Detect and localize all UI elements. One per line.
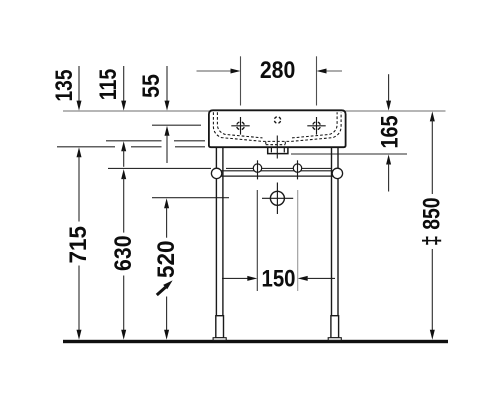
- extension line 150 left: [256, 190, 258, 291]
- svg-text:520: 520: [154, 241, 180, 279]
- reference line 55-bottom: [152, 124, 201, 126]
- console leg left: [213, 147, 226, 340]
- svg-text:135: 135: [52, 70, 78, 102]
- floor line: [63, 340, 448, 343]
- towel rail ball right: [332, 168, 342, 178]
- dimension 715 line with arrows: [77, 147, 82, 339]
- dimension 630 line with arrows: [121, 169, 126, 340]
- towel rail bar: [217, 171, 337, 176]
- svg-text:‡ 850: ‡ 850: [420, 197, 446, 246]
- extension line faucet-hole left vertical: [240, 56, 242, 105]
- fixing hole right: [293, 160, 301, 179]
- label 115: [96, 69, 122, 101]
- drain outlet tab inner marks: [271, 148, 284, 152]
- drain hole circle: [262, 183, 293, 215]
- towel rail ball left: [211, 168, 221, 178]
- svg-text:630: 630: [111, 235, 137, 271]
- label 55: [139, 74, 165, 98]
- overflow hole: [274, 117, 280, 123]
- extension line 150 right: [297, 190, 299, 291]
- reference line 115-bottom: [106, 140, 205, 142]
- reference line outlet-bottom 165: [291, 153, 407, 155]
- svg-text:55: 55: [139, 74, 165, 98]
- basin inner dashed outline outer: [213, 112, 341, 141]
- drain outlet tab: [268, 147, 288, 153]
- label 135: [52, 70, 78, 102]
- faucet hole right: [307, 117, 325, 135]
- basin inner dashed outline inner: [217, 112, 337, 138]
- reference line rail-holes 630: [108, 167, 331, 169]
- fixing hole left: [253, 160, 261, 179]
- label 520: [154, 241, 180, 279]
- drain center line: [276, 136, 278, 159]
- dimension 55 bottom arrow: [165, 126, 170, 163]
- svg-text:150: 150: [262, 267, 296, 293]
- dimension 850 line with arrows: [430, 111, 435, 339]
- washbasin outline: [209, 110, 346, 147]
- svg-text:280: 280: [260, 58, 296, 84]
- dimension 135 top arrow: [77, 66, 82, 111]
- extension line faucet-hole right vertical: [316, 56, 318, 105]
- svg-text:715: 715: [66, 226, 92, 264]
- label 715: [66, 226, 92, 264]
- console leg right: [328, 147, 341, 340]
- reference line drain-center 520: [152, 197, 229, 199]
- dimension 165 arrows: [386, 74, 391, 191]
- label 280: [260, 58, 296, 84]
- dimension 520 line with arrows: [164, 198, 169, 339]
- extension line rim-top right: [346, 110, 446, 112]
- label 150: [262, 267, 296, 293]
- reference line sink-bottom 135: [57, 146, 205, 148]
- dimension 115 bottom arrow: [121, 141, 126, 167]
- extension line rim-top left: [63, 110, 209, 112]
- label 630: [111, 235, 137, 271]
- dimension 115 top arrow: [121, 66, 126, 111]
- drain recess dashed: [266, 142, 286, 145]
- faucet hole left: [231, 117, 249, 135]
- leader arrow diagonal near 520: [157, 280, 173, 295]
- dimension 150 arrows: [222, 276, 335, 281]
- dimension 280 arrows: [197, 69, 343, 74]
- svg-text:165: 165: [377, 116, 403, 149]
- dimension 55 top arrow: [165, 66, 170, 111]
- label 165: [377, 116, 403, 149]
- svg-text:115: 115: [96, 69, 122, 101]
- label 850 with tolerance mark: [420, 197, 446, 246]
